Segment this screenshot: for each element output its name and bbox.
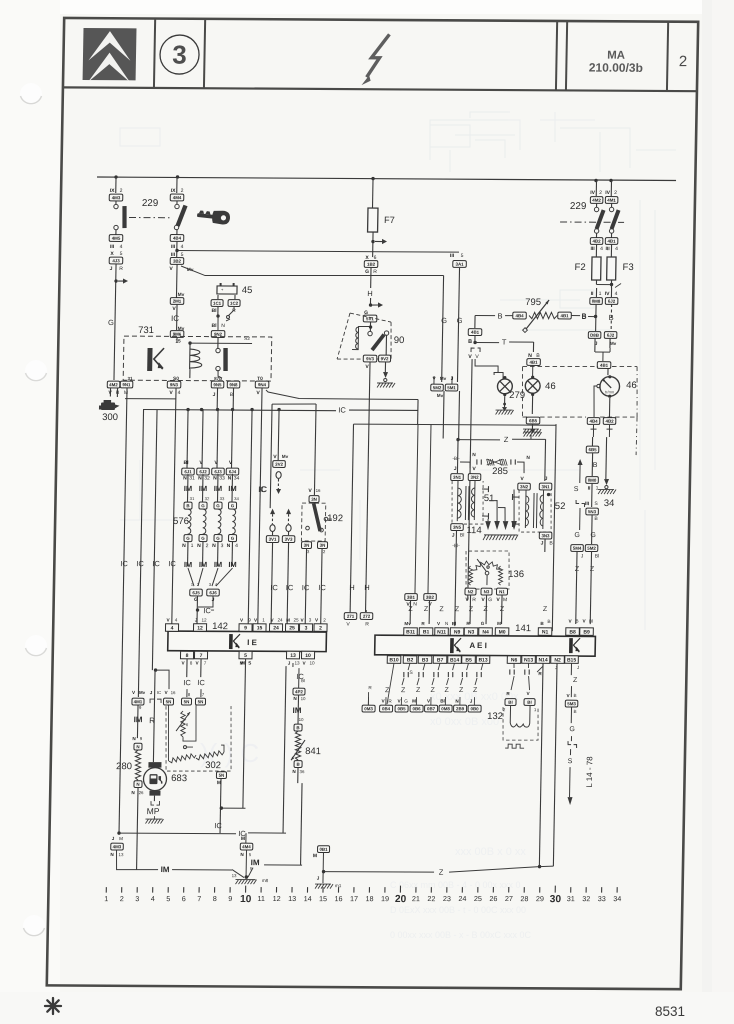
pump icon (149, 774, 162, 784)
svg-text:B3: B3 (422, 658, 429, 664)
svg-text:Bl: Bl (212, 323, 218, 329)
svg-text:IX: IX (171, 188, 176, 194)
wire 3B2 to B1 (428, 600, 430, 624)
svg-text:4M3: 4M3 (112, 195, 121, 200)
svg-text:15: 15 (257, 625, 263, 631)
svg-text:Bl: Bl (301, 678, 305, 683)
svg-text:tr/mn: tr/mn (605, 389, 614, 394)
svg-text:9V3: 9V3 (366, 356, 374, 361)
svg-text:IC: IC (203, 606, 211, 615)
svg-text:46: 46 (626, 380, 637, 391)
wire (187, 541, 189, 566)
svg-text:3N3: 3N3 (541, 533, 550, 538)
connector 3N2 52 (518, 483, 531, 490)
main distribution comb wire (144, 410, 337, 411)
svg-text:Bl: Bl (211, 308, 217, 314)
connector 5M2 r (585, 545, 598, 552)
connector 4M1 (132, 698, 144, 705)
bracket glyph (150, 699, 154, 703)
285 left lead (460, 462, 470, 468)
svg-text:IC: IC (197, 678, 205, 687)
gauge 46 (608, 375, 611, 378)
svg-text:28: 28 (520, 894, 528, 903)
connector 6J2 (605, 298, 618, 305)
wire 795 right (557, 315, 558, 317)
svg-text:795: 795 (525, 297, 541, 308)
svg-text:M: M (241, 836, 245, 842)
svg-text:4M3: 4M3 (113, 844, 122, 849)
wire 6J2 dashed (610, 304, 612, 331)
Z line to 51/52 (456, 438, 459, 441)
node IC (196, 608, 199, 611)
svg-text:Z: Z (439, 868, 444, 877)
connector 5N 8 (181, 698, 191, 705)
svg-text:13: 13 (232, 873, 238, 878)
footer asterisk (43, 996, 63, 1016)
svg-text:32: 32 (582, 894, 590, 903)
connector 0B5 (395, 705, 408, 712)
connector 0M8 (590, 298, 603, 305)
connector 4B1 (605, 238, 618, 245)
pump ground stem (153, 816, 155, 819)
svg-text:MP: MP (147, 806, 160, 816)
svg-text:17: 17 (350, 894, 358, 903)
svg-text:15: 15 (319, 894, 327, 903)
K glyph 141 right (571, 638, 580, 653)
connector 3B2 (170, 258, 184, 265)
svg-text:B: B (468, 339, 472, 345)
svg-text:3A1: 3A1 (456, 262, 465, 267)
svg-text:5M2: 5M2 (587, 546, 596, 551)
coil 51 core (464, 486, 467, 520)
svg-text:87b: 87b (214, 376, 222, 381)
svg-text:IC: IC (120, 559, 128, 568)
comb node (186, 408, 189, 411)
svg-text:683: 683 (171, 773, 187, 784)
ruler tick 29 (539, 887, 541, 893)
svg-text:300: 300 (102, 412, 118, 423)
wire V to lamp279 (475, 359, 498, 371)
wire to corner (297, 767, 299, 783)
injector connector 6J3 (212, 468, 225, 475)
wire 192 feed (314, 404, 316, 495)
connector 3N2 51 (468, 474, 481, 481)
HT lead wires to arrows (487, 519, 489, 521)
svg-text:34: 34 (234, 476, 240, 482)
connector 5N M (216, 772, 226, 779)
svg-text:Bl: Bl (589, 619, 593, 624)
svg-text:N9: N9 (454, 629, 461, 635)
connector 4B2 (590, 238, 603, 245)
wire pump feed (152, 410, 157, 670)
injector 1 feed wire (187, 409, 188, 468)
svg-text:32: 32 (205, 496, 210, 501)
connector 5M1 (445, 384, 458, 391)
coil 52 secondary (542, 490, 545, 529)
connector 6B5 b (586, 446, 599, 453)
suppressor cap (481, 663, 483, 670)
pin 12 top 142 (193, 624, 206, 632)
svg-text:Bl: Bl (595, 554, 600, 560)
connector 1C2 (228, 300, 240, 307)
cap right (510, 459, 512, 464)
wire (217, 337, 219, 348)
tick N14 (537, 663, 543, 672)
pin B5 bottom 141 (462, 656, 476, 664)
wire (176, 241, 178, 257)
V bracket glyph (471, 348, 475, 352)
ruler tick 13 (291, 887, 293, 893)
terminal box B (228, 502, 236, 509)
connector 4B1 lamp46 (527, 359, 541, 366)
node bus-4M1r (609, 179, 612, 182)
svg-text:IV: IV (605, 190, 610, 196)
node col2 (175, 249, 178, 252)
pump brush bottom (149, 791, 160, 796)
svg-text:4B4: 4B4 (173, 236, 182, 241)
svg-text:0B1: 0B1 (319, 847, 328, 852)
connector 3N3 52 (539, 532, 552, 539)
terminal box G (184, 535, 192, 542)
connector 5M2 (431, 384, 444, 391)
svg-text:576: 576 (173, 516, 189, 527)
battery 45 symbol (217, 286, 237, 294)
node H arrow (369, 303, 372, 306)
wire N13 to 132 (528, 676, 529, 690)
pin 15 top 142 (253, 624, 266, 632)
node 52 (547, 493, 550, 496)
svg-text:J: J (541, 541, 544, 547)
svg-text:G: G (108, 318, 114, 327)
switch bar (612, 210, 619, 229)
lamp 279 (503, 376, 506, 379)
wire R to pump (153, 670, 155, 762)
fuse merge bar (595, 280, 597, 285)
resistor 841 (295, 731, 301, 760)
132 dashed box (502, 707, 538, 740)
svg-text:R: R (472, 597, 476, 603)
svg-text:III: III (110, 244, 115, 250)
wire 6J6 jog (198, 596, 213, 607)
H/Z link line (354, 424, 557, 425)
pin B11 top 141 (404, 628, 418, 636)
pin N4 top 141 (479, 628, 493, 636)
plug dashed arrow down (277, 479, 279, 489)
connector 4B2 gauge (603, 418, 616, 425)
svg-text:IC: IC (136, 559, 144, 568)
connector 0B1 (317, 846, 329, 853)
svg-text:N3: N3 (468, 629, 475, 635)
wire 9V2 to ground (384, 362, 386, 372)
battery switch glyph (228, 306, 234, 316)
136 wiper (485, 571, 489, 575)
pin 13 bottom 142 (286, 651, 299, 659)
svg-text:B11: B11 (406, 629, 415, 635)
plug arrow up 3V3 (286, 509, 291, 515)
svg-text:12: 12 (273, 894, 281, 903)
svg-text:C 06xx mm 00B - 4 - 0 00x xxx: C 06xx mm 00B - 4 - 0 00x xxx 0 (390, 880, 521, 890)
svg-text:8: 8 (186, 653, 189, 659)
pin 7 bottom 142 (194, 651, 207, 659)
gauge left terminal (597, 384, 600, 387)
svg-text:B2: B2 (407, 657, 414, 663)
wire 3B1 to B11 (409, 600, 411, 624)
svg-text:9V2: 9V2 (381, 356, 389, 361)
wire B10 jog (387, 663, 394, 704)
svg-text:3B2: 3B2 (426, 595, 435, 600)
svg-text:1: 1 (599, 291, 602, 297)
svg-text:10: 10 (240, 894, 252, 905)
svg-text:Z: Z (504, 435, 509, 444)
connector 0B6 (410, 705, 423, 712)
connector 5M4 (571, 545, 584, 552)
relay pin connector 9N1 (120, 381, 133, 388)
wire Mv-G down to Z line (442, 391, 445, 439)
pump motor circle (143, 768, 166, 791)
svg-text:B: B (497, 312, 502, 321)
IM line right (264, 864, 302, 866)
svg-text:5M4: 5M4 (573, 546, 582, 551)
contact terminals (216, 348, 220, 352)
svg-text:5N: 5N (198, 699, 204, 704)
svg-text:4: 4 (615, 246, 618, 252)
node bus-F7 (371, 177, 374, 180)
M5 link line (221, 807, 245, 809)
ruler tick 2 (121, 887, 123, 893)
svg-text:27: 27 (505, 894, 513, 903)
svg-text:272: 272 (363, 614, 371, 619)
svg-text:1: 1 (104, 894, 108, 903)
connector 4M3 b (111, 843, 124, 850)
svg-text:31: 31 (189, 475, 195, 481)
wire (231, 474, 234, 502)
wire Z node down to 3N1 (456, 440, 459, 474)
svg-text:4B4: 4B4 (515, 313, 524, 318)
svg-text:IC: IC (259, 485, 267, 494)
Mv line corner down (442, 275, 444, 382)
node (322, 870, 325, 873)
302 arrow (176, 712, 190, 731)
svg-text:6: 6 (182, 894, 186, 903)
pump R wire junction (154, 668, 157, 671)
svg-text:142: 142 (212, 621, 228, 632)
suppressor cap (467, 663, 469, 670)
connector 271 (344, 613, 357, 620)
pin N1 top 141 (538, 628, 552, 636)
pin B9 top 141 (580, 628, 594, 636)
svg-text:J: J (454, 466, 457, 472)
pin N3 top 141 (464, 628, 478, 636)
connector 3V1 (266, 536, 279, 543)
svg-text:IC: IC (157, 690, 161, 695)
svg-text:IV: IV (605, 291, 610, 297)
wire M5 long down (243, 659, 246, 808)
ruler tick 3 (136, 887, 138, 893)
svg-text:9: 9 (244, 625, 247, 631)
svg-text:2B9: 2B9 (456, 706, 465, 711)
connector N b (134, 781, 142, 788)
svg-text:M: M (313, 853, 317, 859)
wire 3V3 to pin25 (287, 542, 289, 627)
ground 34 (598, 490, 601, 495)
svg-text:B: B (547, 619, 550, 625)
svg-text:N2: N2 (554, 657, 561, 663)
svg-text:5: 5 (244, 653, 247, 659)
K glyph 141 left (452, 638, 461, 653)
svg-text:3N1: 3N1 (542, 484, 551, 489)
comb node (216, 408, 219, 411)
svg-text:12: 12 (201, 618, 207, 623)
svg-text:13: 13 (288, 894, 296, 903)
wire N2 to N3pin (469, 595, 472, 624)
svg-text:2: 2 (614, 190, 617, 196)
merge ticks (615, 284, 621, 288)
wire (202, 541, 204, 566)
punch hole bottom (23, 915, 45, 937)
svg-text:M: M (412, 699, 416, 704)
terminal box B (214, 502, 222, 509)
svg-text:34: 34 (234, 496, 239, 501)
svg-text:4P2: 4P2 (295, 689, 303, 694)
svg-text:34: 34 (604, 498, 615, 509)
svg-text:G: G (488, 597, 492, 603)
302 wire (183, 705, 197, 741)
svg-text:B14: B14 (450, 657, 459, 663)
svg-text:N: N (197, 543, 201, 549)
svg-text:9N5: 9N5 (213, 382, 222, 387)
wire 4B4 chain (591, 437, 593, 446)
svg-text:0M8: 0M8 (592, 299, 601, 304)
svg-text:51: 51 (484, 493, 495, 504)
svg-text:31: 31 (190, 496, 195, 501)
pin N6 bottom 141 (507, 656, 521, 664)
battery leads (217, 295, 219, 299)
ruler tick 4 (152, 887, 154, 893)
pin 3 top 142 (299, 624, 312, 632)
cap N13 (527, 663, 529, 668)
connector 0B4 (380, 705, 393, 712)
connector 3B1 (405, 594, 418, 601)
ruler tick 30 (554, 886, 556, 893)
svg-text:3B1: 3B1 (407, 595, 416, 600)
junction w arrow (114, 279, 117, 282)
svg-text:5M2: 5M2 (433, 385, 442, 390)
injector connector 6J2 (197, 468, 210, 475)
connector 4M5 (109, 235, 123, 242)
svg-text:6J6: 6J6 (209, 590, 217, 595)
svg-text:R: R (365, 622, 369, 628)
ruler tick 34 (616, 887, 618, 893)
svg-text:10: 10 (301, 696, 307, 701)
svg-text:Mv: Mv (404, 621, 411, 626)
node B (594, 315, 597, 318)
injector coil 1 (188, 509, 192, 534)
svg-text:1C2: 1C2 (230, 301, 239, 306)
svg-text:10: 10 (299, 717, 305, 722)
wire 6J5 to pin12 (196, 596, 199, 627)
svg-text:26: 26 (489, 894, 497, 903)
svg-text:0B7: 0B7 (427, 706, 436, 711)
svg-text:Bl: Bl (440, 699, 445, 704)
terminal box B (184, 502, 192, 509)
connector 0M0 (586, 477, 599, 484)
wire 272 stub (365, 610, 367, 612)
svg-text:23: 23 (443, 894, 451, 903)
svg-text:841: 841 (305, 746, 321, 757)
svg-text:25: 25 (474, 894, 482, 903)
svg-text:6J5: 6J5 (192, 590, 200, 595)
svg-text:N: N (136, 782, 139, 787)
connector 4M4 b (240, 843, 253, 850)
svg-text:1: 1 (596, 486, 599, 492)
wire (115, 230, 117, 235)
wire H1 corner down to 271 (350, 424, 353, 612)
svg-text:4B1: 4B1 (561, 313, 570, 318)
suppressor cap (423, 663, 425, 670)
wire Z right corner to N1 pin (552, 424, 556, 631)
svg-text:III: III (605, 246, 610, 252)
ruler tick 17 (353, 887, 355, 893)
svg-text:H: H (364, 583, 370, 592)
ECU box 142 (168, 631, 327, 652)
relay 90 coil (357, 326, 359, 350)
svg-text:5: 5 (461, 253, 464, 259)
svg-text:4: 4 (235, 543, 238, 549)
connector 3A1 (453, 261, 467, 268)
ruler tick 6 (183, 887, 185, 893)
wire (217, 541, 219, 566)
connector 5M3 (565, 700, 578, 707)
connector 4B4 gauge (587, 418, 600, 425)
suppressor cap (453, 663, 455, 670)
wire V8 down (186, 659, 188, 677)
svg-text:5: 5 (120, 251, 123, 257)
node bus-1M3 (114, 175, 117, 178)
break bracket (568, 741, 571, 745)
pin 5 bottom 142 (239, 651, 252, 659)
svg-text:IC: IC (214, 821, 222, 830)
ruler tick 27 (508, 887, 510, 893)
svg-text:S: S (568, 758, 573, 765)
svg-text:18: 18 (365, 894, 373, 903)
svg-text:731: 731 (138, 325, 154, 336)
connector 5N 7 (195, 698, 205, 705)
svg-text:1C1: 1C1 (213, 301, 222, 306)
svg-text:4J3: 4J3 (112, 258, 120, 263)
coil 52 core (532, 493, 535, 528)
svg-text:2: 2 (679, 53, 688, 70)
wire (176, 201, 178, 204)
connector 6J6 (207, 589, 220, 596)
svg-text:B15: B15 (567, 657, 576, 663)
svg-text:4M1: 4M1 (607, 198, 616, 203)
136 wiper lead (486, 575, 488, 585)
wire N14 down (539, 663, 543, 866)
svg-text:4M4: 4M4 (173, 195, 182, 200)
wire M down to 4M3 junction (119, 388, 127, 833)
svg-text:4M4: 4M4 (242, 844, 251, 849)
svg-text:3N: 3N (304, 543, 310, 548)
IM diagonal right (248, 868, 253, 878)
lamp279 to ground (503, 393, 506, 396)
pin 24 top 142 (269, 624, 282, 632)
svg-text:R: R (119, 266, 123, 272)
wire (176, 304, 178, 330)
svg-text:J: J (545, 476, 548, 482)
svg-text:3: 3 (221, 543, 224, 549)
connector 9N2 (211, 331, 225, 338)
relay S0 wire (189, 369, 191, 378)
